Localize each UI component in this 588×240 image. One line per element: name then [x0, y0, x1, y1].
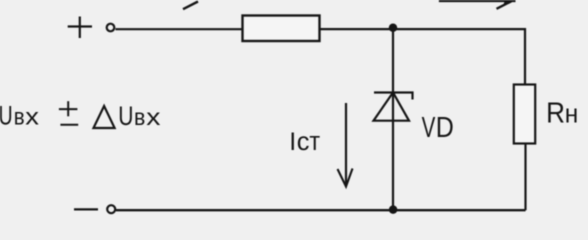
node A junction dot: [389, 24, 398, 33]
input terminal top circle: [107, 24, 115, 32]
svg-text:с: с: [297, 128, 310, 156]
svg-text:в: в: [14, 103, 25, 130]
svg-text:D: D: [436, 110, 454, 143]
current arrow top-right horizontal bar (cut off): [439, 0, 516, 2]
wire: zener branch vertical: [392, 29, 394, 210]
zener diode VD cathode bar with tick: [374, 93, 413, 100]
svg-text:U: U: [0, 100, 13, 130]
wire: top terminal to ballast resistor: [116, 28, 243, 30]
current arrow top-right head (cut off): [504, 0, 516, 4]
minus terminal polarity sign: [74, 208, 98, 210]
current arrow Ict head: [338, 169, 353, 187]
svg-text:х: х: [146, 103, 160, 130]
svg-text:I: I: [289, 128, 296, 156]
load resistor Rn: [514, 85, 535, 144]
wire: Rn to bottom rail: [524, 144, 526, 211]
svg-text:н: н: [565, 100, 579, 129]
plus terminal polarity sign: [68, 17, 92, 39]
plus-minus sign: [59, 101, 78, 125]
svg-text:х: х: [25, 104, 39, 130]
svg-text:V: V: [422, 111, 436, 143]
zener diode VD triangle: [374, 93, 410, 121]
wire: resistor to node A and to right corner: [320, 28, 525, 30]
ballast resistor: [243, 16, 320, 42]
node B junction dot: [389, 205, 398, 214]
wire: right vertical upper: [524, 28, 526, 85]
current arrow Ict shaft: [345, 103, 347, 186]
current arrow top-right shaft (cut off): [497, 1, 512, 9]
svg-text:U: U: [118, 102, 133, 132]
output terminal bottom circle: [107, 205, 115, 213]
delta triangle: [94, 106, 115, 128]
wire: bottom rail: [116, 209, 526, 211]
svg-text:т: т: [309, 128, 320, 156]
svg-text:в: в: [134, 104, 145, 130]
svg-text:R: R: [546, 96, 565, 129]
current arrow fragment top-left (cut off): [183, 2, 198, 10]
